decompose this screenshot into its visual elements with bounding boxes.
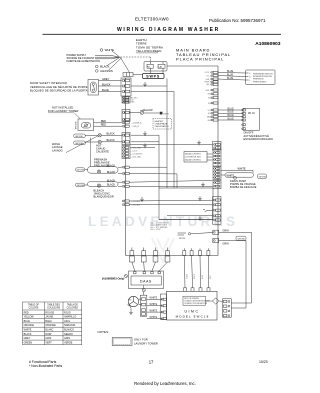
svg-text:BLANCO: BLANCO xyxy=(64,329,74,332)
svg-text:WHITE: WHITE xyxy=(238,168,246,171)
svg-text:DO_S: DO_S xyxy=(207,75,211,77)
svg-text:NOTES:: NOTES: xyxy=(98,330,110,334)
svg-text:FUENTE DE ALIMENTACIÓN: FUENTE DE ALIMENTACIÓN xyxy=(67,60,100,63)
svg-text:ORANGE: ORANGE xyxy=(24,324,35,327)
svg-text:WHITE: WHITE xyxy=(150,303,158,306)
power supply terminal BLACK xyxy=(96,65,99,68)
pressure switch text xyxy=(253,73,273,83)
svg-text:Rendered by LeadVentures, Inc.: Rendered by LeadVentures, Inc. xyxy=(134,381,196,386)
svg-text:CALIENTE: CALIENTE xyxy=(96,150,109,153)
diamond to right connector wire xyxy=(219,300,223,302)
svg-text:* Non-Illustrated Parts: * Non-Illustrated Parts xyxy=(29,364,62,368)
svg-text:17: 17 xyxy=(149,360,154,365)
svg-text:— NTC_GND: — NTC_GND xyxy=(131,156,142,158)
right connector (drain pump) xyxy=(213,167,221,180)
leader line to thermostat xyxy=(75,113,81,119)
main board bottom edge xyxy=(126,255,219,257)
svg-text:PRESSION: PRESSION xyxy=(253,79,264,81)
svg-text:GRIS: GRIS xyxy=(64,337,70,340)
fuse/filter box FL1 LA1 xyxy=(144,62,167,74)
power supply terminal CHASSIS xyxy=(96,70,99,73)
svg-text:BLACK: BLACK xyxy=(107,184,116,187)
svg-text:RETRL: RETRL xyxy=(179,238,186,240)
svg-text:W. D.: W. D. xyxy=(248,111,255,115)
svg-text:GREEN: GREEN xyxy=(24,341,33,344)
svg-text:PLACA PRINCIPAL: PLACA PRINCIPAL xyxy=(176,57,224,62)
svg-text:TABLE DES: TABLE DES xyxy=(47,304,60,307)
svg-text:GRAY: GRAY xyxy=(223,242,230,245)
UIMC right connector xyxy=(223,299,232,317)
drain pump terminal xyxy=(234,177,237,180)
motor to connector wires xyxy=(139,299,142,305)
ground on bleach wire xyxy=(201,183,205,187)
heater terminal xyxy=(160,112,162,114)
heater wire xyxy=(129,112,140,114)
suppressor symbol xyxy=(178,233,213,236)
main board top wire xyxy=(167,65,218,67)
svg-text:BLANC: BLANC xyxy=(45,329,53,332)
svg-text:BLACK: BLACK xyxy=(100,65,110,69)
valve coil 1 xyxy=(85,134,122,137)
svg-text:BLUE: BLUE xyxy=(227,74,234,77)
motor connector block xyxy=(140,295,147,316)
drain pump tag xyxy=(258,174,267,179)
svg-text:NATURAL: NATURAL xyxy=(77,184,85,187)
svg-text:ROUGE: ROUGE xyxy=(45,311,54,314)
internal wire bleach top xyxy=(129,180,212,182)
J3 pin labels xyxy=(131,96,139,103)
UIMC top pins xyxy=(184,288,211,292)
header rule xyxy=(43,33,282,35)
main board right edge xyxy=(217,66,219,256)
svg-text:YELLOW: YELLOW xyxy=(143,109,154,112)
svg-text:BLUE: BLUE xyxy=(228,117,235,120)
door interlock wires xyxy=(99,81,122,92)
svg-text:BLACK: BLACK xyxy=(107,165,116,168)
main board left edge xyxy=(125,78,127,256)
right pin group 3 (W.D.) xyxy=(211,109,218,121)
svg-text:NOT INSTALLED: NOT INSTALLED xyxy=(52,105,73,109)
svg-text:BLACK: BLACK xyxy=(102,82,111,86)
svg-text:DOOR SAFETY INTERLOCK: DOOR SAFETY INTERLOCK xyxy=(30,81,68,85)
svg-text:GND_S: GND_S xyxy=(206,90,212,92)
svg-text:# Functional Parts: # Functional Parts xyxy=(29,360,57,364)
svg-text:YELLOW: YELLOW xyxy=(24,316,35,319)
svg-text:J2-6 — LOOP: J2-6 — LOOP xyxy=(150,229,161,231)
door interlock switch box xyxy=(88,80,99,96)
svg-text:AMARILLO: AMARILLO xyxy=(64,316,76,319)
valve tag 1 xyxy=(74,134,86,138)
svg-text:BLACK: BLACK xyxy=(107,180,116,183)
power entry connector xyxy=(123,73,143,77)
earth label text xyxy=(136,38,163,53)
svg-text:WHITE: WHITE xyxy=(24,329,32,332)
not installed label xyxy=(48,105,79,113)
motor driver box xyxy=(183,296,206,305)
hot label xyxy=(96,144,109,153)
ground on valve1 wire xyxy=(143,131,147,135)
wire to relay block with ground xyxy=(130,144,213,146)
svg-text:GREY: GREY xyxy=(24,337,31,340)
internal bus vertical 3 xyxy=(158,135,160,188)
svg-text:BLANQUEADOR: BLANQUEADOR xyxy=(94,196,114,199)
svg-text:WHITE: WHITE xyxy=(227,174,235,177)
svg-text:INTERRUPTEUR DE: INTERRUPTEUR DE xyxy=(253,76,273,78)
svg-text:PUMP_S: PUMP_S xyxy=(204,82,211,84)
svg-text:CONTRÔLE H2O: CONTRÔLE H2O xyxy=(185,156,201,159)
svg-text:BROWN: BROWN xyxy=(75,121,77,129)
svg-text:— LID_S: — LID_S xyxy=(131,126,139,128)
single pins DOOR_S / LID_S xyxy=(122,122,129,128)
svg-text:NATURAL: NATURAL xyxy=(237,238,245,241)
connector block J3 (4 small pins) xyxy=(122,97,130,104)
svg-text:WHITE: WHITE xyxy=(150,297,158,300)
svg-text:AZUL: AZUL xyxy=(64,320,71,323)
notes text xyxy=(134,338,158,346)
svg-text:1: 1 xyxy=(249,80,250,82)
DAAS only marker xyxy=(125,275,128,278)
J2 label block xyxy=(150,222,169,231)
internal vertical drop 4 xyxy=(176,174,178,188)
svg-text:COLORS: COLORS xyxy=(28,308,38,310)
right pin group 2 stubs xyxy=(211,89,218,104)
svg-text:WIRING DIAGRAM WASHER: WIRING DIAGRAM WASHER xyxy=(117,27,220,33)
svg-text:NOIR: NOIR xyxy=(45,333,51,336)
svg-text:PRESOSTATO: PRESOSTATO xyxy=(253,80,267,83)
svg-text:LOCK_S: LOCK_S xyxy=(205,72,211,74)
svg-text:Publication No: 5995736971: Publication No: 5995736971 xyxy=(209,18,266,23)
internal wire (neutral) xyxy=(131,85,167,87)
svg-text:WHITE: WHITE xyxy=(194,274,196,279)
svg-text:SWPS: SWPS xyxy=(146,75,160,79)
svg-text:TABLA DE: TABLA DE xyxy=(67,304,78,307)
svg-text:ENCENDIDO/APAGADO: ENCENDIDO/APAGADO xyxy=(244,138,274,141)
stub with cap symbol xyxy=(203,209,213,211)
svg-text:TABLE OF: TABLE OF xyxy=(28,304,40,307)
right connector block (relay outputs) xyxy=(213,197,222,225)
J6 pin labels xyxy=(131,147,144,158)
motor wires WHITE xyxy=(147,299,162,318)
heater wire cont xyxy=(144,112,160,114)
svg-text:COULEURS: COULEURS xyxy=(47,308,60,310)
svg-text:2: 2 xyxy=(249,76,250,78)
UIMC left connector xyxy=(161,294,167,320)
heater dashed box xyxy=(153,119,172,129)
UIMC wires vertical xyxy=(184,256,208,288)
svg-text:4: 4 xyxy=(249,73,250,75)
right pin group 1 (pressure switch) xyxy=(211,71,218,85)
svg-text:GREY: GREY xyxy=(102,77,110,81)
drain pump wires xyxy=(221,170,253,175)
svg-text:BLACK: BLACK xyxy=(107,133,116,136)
svg-text:UIMC: UIMC xyxy=(184,309,199,313)
svg-text:BLACK: BLACK xyxy=(107,139,116,142)
driver diamond xyxy=(213,298,219,304)
DAAS outer box xyxy=(129,271,164,289)
svg-text:BLUE: BLUE xyxy=(227,77,234,80)
valve group bus xyxy=(90,138,92,167)
power supply leads xyxy=(95,56,120,59)
connector block J5 (valves 1) xyxy=(122,133,130,145)
table header xyxy=(28,304,79,310)
svg-text:LED_S: LED_S xyxy=(206,84,211,86)
bleach label xyxy=(94,190,114,199)
internal wire J2-5 xyxy=(129,204,212,206)
internal wire J2-3 xyxy=(129,199,212,202)
motor circle xyxy=(128,296,138,306)
svg-text:CHAUFFAGE: CHAUFFAGE xyxy=(155,123,168,126)
svg-text:LAUNDRY TOWER: LAUNDRY TOWER xyxy=(134,341,158,345)
thermal cutoff symbol xyxy=(140,111,144,115)
svg-text:BLOQUEO DE SEGURIDAD DE LA PUE: BLOQUEO DE SEGURIDAD DE LA PUERTA xyxy=(30,89,88,93)
wires to W.D. xyxy=(218,110,243,120)
svg-text:VERDE: VERDE xyxy=(64,341,73,344)
wash leader diagonal xyxy=(66,136,99,153)
svg-text:BLEU: BLEU xyxy=(45,320,52,323)
gray wire tag xyxy=(236,236,246,240)
UIMC wire labels (rotated) xyxy=(185,273,212,279)
power supply label xyxy=(67,54,100,63)
svg-text:AQUA CONTROL: AQUA CONTROL xyxy=(185,153,202,156)
power entry wires to board xyxy=(107,51,130,73)
svg-text:(A10860903 Only): (A10860903 Only) xyxy=(102,277,125,281)
svg-text:CONDUCTOR DE MOTOR: CONDUCTOR DE MOTOR xyxy=(184,303,208,305)
svg-text:NATURAL: NATURAL xyxy=(77,169,85,172)
valve tag 4 xyxy=(76,183,85,187)
svg-text:WHITE: WHITE xyxy=(150,309,158,312)
table rows xyxy=(24,311,77,344)
door safety interlock label xyxy=(30,81,88,92)
earth dashed wire xyxy=(121,56,152,58)
right connector lower xyxy=(213,181,221,189)
svg-text:MODEL EWC18: MODEL EWC18 xyxy=(176,315,210,319)
valve coil 2 xyxy=(85,140,122,143)
internal wire with ground xyxy=(130,147,155,149)
svg-text:10/23: 10/23 xyxy=(259,360,268,364)
valve wire labels BLACK xyxy=(107,165,116,187)
internal wire prewash top xyxy=(129,166,167,168)
valve body 4 (bleach) xyxy=(85,182,122,188)
valve tag 3 xyxy=(76,168,85,172)
connector below DAAS xyxy=(142,288,145,291)
svg-text:GRIS: GRIS xyxy=(45,337,51,340)
single pins J2 group xyxy=(122,200,129,206)
svg-text:JAUNE: JAUNE xyxy=(45,316,53,319)
notes symbol box xyxy=(112,338,132,346)
svg-text:ROJO: ROJO xyxy=(64,311,71,314)
valve body 3 (prewash) xyxy=(85,167,122,174)
svg-text:COLORES: COLORES xyxy=(67,308,79,310)
gray wire 2 xyxy=(219,241,246,309)
svg-text:DAAS: DAAS xyxy=(140,280,152,284)
UIMC box xyxy=(167,291,218,320)
internal wire bottom with ground xyxy=(159,219,213,221)
svg-text:— LID_ACROS: — LID_ACROS xyxy=(131,152,144,155)
svg-text:CHN_S: CHN_S xyxy=(206,79,211,81)
connector block J4 (heater/ntc) xyxy=(122,110,130,122)
internal bus vertical 1 xyxy=(173,92,175,189)
svg-text:LMTS: LMTS xyxy=(163,114,169,116)
svg-text:NARANJA: NARANJA xyxy=(64,324,76,327)
wash label xyxy=(52,142,63,153)
svg-text:CALENTADOR: CALENTADOR xyxy=(155,125,170,128)
svg-text:HEATER: HEATER xyxy=(155,120,164,123)
drain pump label xyxy=(230,180,257,189)
svg-text:RED: RED xyxy=(24,311,29,314)
svg-text:CHASSIS: CHASSIS xyxy=(100,69,113,73)
svg-text:ONLY FOR: ONLY FOR xyxy=(134,338,148,342)
single pins for valve wires xyxy=(122,166,129,187)
wires to pressure switch xyxy=(218,72,246,80)
earth dashed drop to fuse box xyxy=(150,57,152,62)
svg-text:ELTE7300AW0: ELTE7300AW0 xyxy=(135,16,169,21)
svg-text:A10860903: A10860903 xyxy=(255,41,281,47)
svg-text:BLACK: BLACK xyxy=(107,171,116,174)
svg-text:BLACK: BLACK xyxy=(24,333,32,336)
svg-text:— LID_S: — LID_S xyxy=(131,150,139,152)
svg-text:NATURAL: NATURAL xyxy=(259,175,267,178)
internal wire bleach bottom xyxy=(129,185,212,187)
gray wire pins xyxy=(213,230,219,242)
internal bus vertical 2 xyxy=(166,79,168,189)
drain pump body xyxy=(225,173,254,177)
watermark V logo xyxy=(152,238,174,262)
svg-text:PRESSURE SWITCH: PRESSURE SWITCH xyxy=(253,73,273,75)
svg-text:BLUE: BLUE xyxy=(102,88,109,92)
svg-text:BLUE: BLUE xyxy=(202,275,204,279)
connector block J6 (4 pins) xyxy=(122,146,130,159)
internal wire prewash bottom xyxy=(129,173,177,175)
bottom right pin pairs to UIMC xyxy=(183,248,210,255)
svg-text:BOMBA DE DESAGÜE: BOMBA DE DESAGÜE xyxy=(230,186,257,189)
earth label underline xyxy=(136,52,158,54)
svg-text:NEGRO: NEGRO xyxy=(64,333,73,336)
connector block J1 (door) xyxy=(121,78,131,96)
ground on neutral wire xyxy=(143,82,147,86)
power supply terminal WHITE xyxy=(100,49,103,52)
prewash label xyxy=(94,158,110,167)
relay block rectangle xyxy=(159,188,213,220)
valve tag 2 xyxy=(74,141,86,145)
svg-text:BLUE: BLUE xyxy=(24,320,31,323)
right connector for aqua control xyxy=(213,150,221,167)
SWPS power supply module xyxy=(143,74,165,79)
svg-text:YELLOW/GREEN: YELLOW/GREEN xyxy=(136,49,162,53)
W.D. pins xyxy=(242,109,246,130)
svg-text:AQUA CONTROL: AQUA CONTROL xyxy=(185,159,202,162)
W.D. box xyxy=(243,108,260,130)
pressure switch box xyxy=(246,70,276,85)
svg-text:RED: RED xyxy=(101,124,106,127)
thermostat wires RED xyxy=(94,123,123,126)
svg-text:WHITE: WHITE xyxy=(150,316,158,319)
svg-text:LAVADO: LAVADO xyxy=(52,148,63,152)
aqua control module xyxy=(184,152,213,163)
thermostat box xyxy=(78,119,94,131)
internal wire valve2 xyxy=(131,141,159,143)
DAAS wires xyxy=(132,262,168,271)
svg-text:FOR LAUNDRY TOWER: FOR LAUNDRY TOWER xyxy=(48,109,79,113)
motor ground xyxy=(128,304,131,310)
internal wire valve1 xyxy=(131,134,159,136)
svg-text:GRAY: GRAY xyxy=(223,230,230,233)
gray wire 1 xyxy=(219,232,252,303)
svg-text:ORANGE: ORANGE xyxy=(45,324,56,327)
DAAS inner box xyxy=(131,276,161,285)
main board label xyxy=(176,48,231,62)
svg-text:VERT: VERT xyxy=(45,341,52,344)
bottom left pin pairs to DAAS xyxy=(130,248,170,263)
internal wire row xyxy=(167,215,213,217)
internal wire to bus xyxy=(131,91,174,93)
svg-text:NATURAL: NATURAL xyxy=(75,142,83,145)
on/off label xyxy=(244,132,274,141)
svg-text:— DOOR_S: — DOOR_S xyxy=(131,123,142,125)
DAAS top pins xyxy=(134,272,161,274)
svg-text:NATURAL: NATURAL xyxy=(75,135,83,138)
